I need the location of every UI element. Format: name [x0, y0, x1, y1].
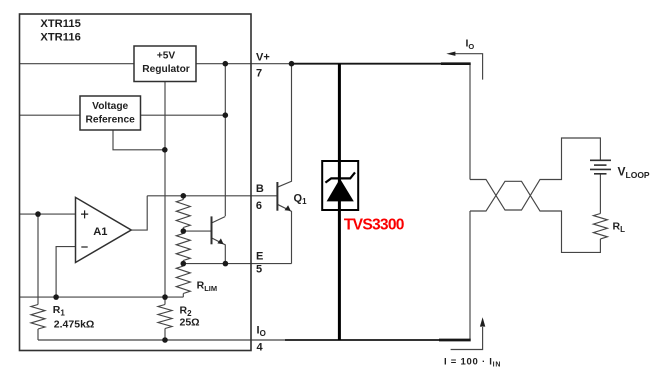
svg-text:E: E: [256, 250, 263, 262]
svg-text:XTR115: XTR115: [40, 18, 80, 30]
svg-text:R1: R1: [53, 304, 66, 318]
svg-text:RLIM: RLIM: [197, 280, 218, 294]
svg-text:I = 100 · IIN: I = 100 · IIN: [444, 357, 501, 369]
svg-text:6: 6: [256, 200, 262, 212]
svg-text:B: B: [256, 183, 264, 195]
svg-text:A1: A1: [93, 226, 107, 238]
svg-text:25Ω: 25Ω: [180, 317, 200, 329]
svg-text:Regulator: Regulator: [142, 64, 190, 75]
svg-text:Q1: Q1: [294, 193, 308, 207]
svg-text:VLOOP: VLOOP: [618, 164, 650, 180]
svg-text:2.475kΩ: 2.475kΩ: [54, 319, 95, 331]
svg-text:4: 4: [257, 341, 264, 353]
svg-text:Voltage: Voltage: [92, 101, 128, 112]
svg-text:IO: IO: [257, 325, 266, 339]
svg-text:V+: V+: [256, 51, 270, 63]
svg-text:5: 5: [256, 264, 262, 276]
svg-text:TVS3300: TVS3300: [344, 217, 405, 234]
svg-text:XTR116: XTR116: [40, 31, 80, 43]
svg-text:Reference: Reference: [86, 114, 136, 125]
svg-text:RL: RL: [613, 221, 626, 235]
svg-text:IO: IO: [466, 38, 475, 52]
svg-text:+5V: +5V: [157, 51, 176, 62]
svg-text:7: 7: [256, 68, 262, 80]
